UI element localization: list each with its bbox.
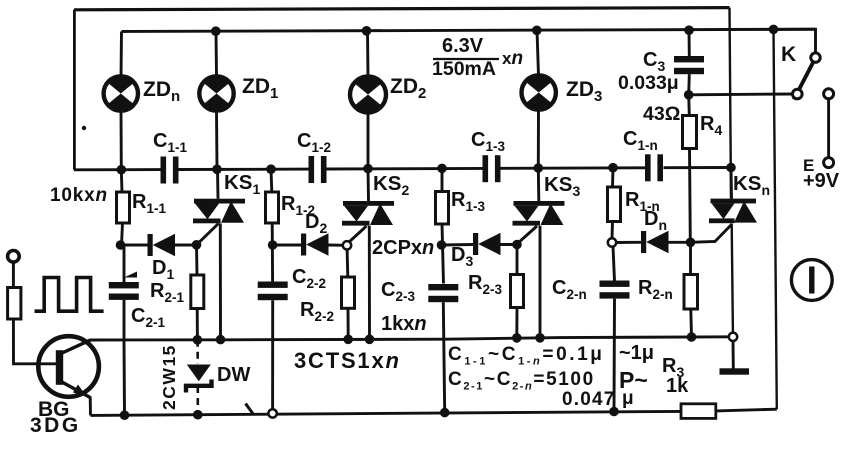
junction dot <box>266 164 276 174</box>
wire <box>120 111 123 170</box>
junction dot <box>343 335 353 345</box>
junction dot <box>362 26 372 36</box>
svg-text:C1-1: C1-1 <box>153 130 187 155</box>
svg-text:R1-1: R1-1 <box>132 191 166 216</box>
open node <box>729 333 737 341</box>
wire <box>122 223 125 283</box>
wire <box>216 169 219 198</box>
lamp ZDn <box>104 76 138 110</box>
wire <box>687 74 690 95</box>
svg-text:R2-3: R2-3 <box>468 272 502 297</box>
wire <box>689 242 692 274</box>
wire <box>271 300 274 413</box>
transistor BG 3DG <box>38 336 99 397</box>
diode D1 <box>148 234 176 256</box>
wire <box>732 341 735 369</box>
junction dot <box>116 240 126 250</box>
wire <box>664 166 732 169</box>
open node <box>824 89 834 99</box>
junction dot <box>609 407 619 417</box>
svg-text:R4: R4 <box>700 113 722 138</box>
wire <box>716 409 777 411</box>
svg-text:0.047: 0.047 <box>562 389 616 410</box>
open node <box>793 89 803 99</box>
wire <box>178 168 309 171</box>
svg-text:KS1: KS1 <box>224 171 260 197</box>
capacitor C1-2 <box>309 156 327 183</box>
svg-text:3CTS1xn: 3CTS1xn <box>294 348 401 373</box>
polarity tick C2-1 <box>124 272 137 278</box>
svg-text:+9V: +9V <box>803 170 840 192</box>
svg-text:KS2: KS2 <box>373 172 409 198</box>
svg-text:C2-3: C2-3 <box>381 279 415 304</box>
junction dot <box>684 25 694 35</box>
open node <box>824 158 834 168</box>
wire <box>197 224 219 245</box>
capacitor C2-1 <box>109 282 139 300</box>
wire <box>613 299 616 412</box>
wire <box>215 31 218 76</box>
junction dot <box>608 163 618 173</box>
wire <box>270 169 274 192</box>
junction dot <box>535 333 545 343</box>
wire <box>730 8 732 199</box>
svg-text:ZD2: ZD2 <box>390 75 426 102</box>
svg-text:C1-1~C1-n=0.1μ: C1-1~C1-n=0.1μ <box>448 344 605 368</box>
svg-text:ZD1: ZD1 <box>242 75 278 102</box>
wire <box>346 245 350 277</box>
junction dot <box>212 165 222 175</box>
stray dot <box>82 126 86 130</box>
svg-text:C1-2: C1-2 <box>297 130 331 155</box>
junction dot <box>268 240 278 250</box>
wire dashed from DW <box>197 386 200 415</box>
svg-text:150mA: 150mA <box>432 58 496 80</box>
wire <box>366 31 369 78</box>
wire <box>688 149 692 243</box>
wire <box>442 224 444 284</box>
junction dot <box>686 238 696 248</box>
junction dot <box>684 90 694 100</box>
svg-text:R2-1: R2-1 <box>150 280 184 305</box>
svg-text:1k: 1k <box>666 375 689 397</box>
wire <box>347 308 350 339</box>
thyristor KS2 <box>342 201 394 226</box>
capacitor C3 <box>674 56 704 74</box>
svg-text:2CW15: 2CW15 <box>159 344 179 410</box>
svg-text:10kxn: 10kxn <box>50 185 108 206</box>
wire <box>515 308 518 338</box>
wire <box>518 226 537 243</box>
wire <box>500 166 645 169</box>
wire <box>500 243 518 246</box>
svg-text:3DG: 3DG <box>30 414 81 437</box>
wire <box>611 168 614 187</box>
open node <box>608 238 616 246</box>
indicator I <box>791 260 832 301</box>
wire <box>273 244 301 247</box>
wire <box>516 245 519 275</box>
open node <box>268 409 276 417</box>
wire <box>35 278 104 312</box>
wire <box>120 170 124 192</box>
wire left border <box>73 10 76 170</box>
wire <box>13 319 56 364</box>
lamp ZD3 <box>522 75 556 109</box>
wire <box>537 168 540 201</box>
svg-text:C3: C3 <box>643 49 665 74</box>
resistor R2-1 <box>191 275 204 309</box>
wire dashed to DW <box>196 340 199 364</box>
svg-text:C1-n: C1-n <box>623 128 658 153</box>
wire <box>349 226 367 243</box>
wire <box>611 222 614 239</box>
wire <box>730 168 733 199</box>
svg-text:R1-3: R1-3 <box>451 189 485 214</box>
svg-text:C2-1: C2-1 <box>131 305 165 330</box>
capacitor C2-3 <box>428 284 458 302</box>
resistor R2-3 <box>511 275 524 308</box>
wire <box>74 168 161 171</box>
svg-text:R2-n: R2-n <box>638 277 673 302</box>
junction dot <box>687 332 697 342</box>
diode D2 <box>301 233 329 255</box>
svg-text:~1μ: ~1μ <box>619 342 654 364</box>
junction dot <box>211 26 221 36</box>
resistor R4 <box>683 116 697 149</box>
capacitor C1-3 <box>483 155 501 182</box>
wire <box>368 226 371 340</box>
wire <box>774 29 816 53</box>
junction dot <box>532 26 542 36</box>
junction dot <box>726 163 736 173</box>
svg-text:C2-n: C2-n <box>552 277 587 302</box>
capacitor C2-2 <box>258 282 288 301</box>
svg-text:ZDn: ZDn <box>143 78 180 105</box>
capacitor C2-n <box>600 281 630 299</box>
resistor R1-1 <box>117 192 130 223</box>
svg-text:KS3: KS3 <box>544 173 580 199</box>
ground <box>720 368 750 374</box>
svg-text:KSn: KSn <box>733 172 770 198</box>
wire <box>215 111 218 170</box>
wire <box>91 337 734 340</box>
wire <box>689 93 793 97</box>
wire <box>616 241 641 244</box>
thyristor KSn <box>709 199 757 224</box>
svg-text:2CPxn: 2CPxn <box>372 237 434 259</box>
wire <box>121 244 148 247</box>
wire top border <box>74 8 730 10</box>
junction dot <box>365 335 375 345</box>
svg-text:D1: D1 <box>152 257 174 282</box>
wire <box>122 29 816 31</box>
junction dot <box>437 240 447 250</box>
wire <box>89 397 92 416</box>
wire <box>174 244 197 247</box>
thyristor KS3 <box>513 201 565 226</box>
junction dot <box>216 335 226 345</box>
wire <box>327 167 484 171</box>
junction dot <box>120 410 130 420</box>
svg-text:C1-3: C1-3 <box>471 129 505 154</box>
wire <box>91 411 682 415</box>
junction dot <box>534 163 544 173</box>
capacitor C1-1 <box>161 157 179 184</box>
resistor R2-n <box>684 275 698 310</box>
wire <box>691 224 732 242</box>
resistor R3 <box>681 404 716 419</box>
wire <box>123 300 126 340</box>
wire <box>195 245 198 275</box>
wire <box>12 262 15 288</box>
resistor Rin <box>8 288 21 320</box>
wire <box>441 168 444 191</box>
open node <box>811 53 820 62</box>
wire <box>120 32 123 77</box>
svg-text:K: K <box>781 43 796 66</box>
wire <box>196 309 199 340</box>
svg-text:D3: D3 <box>451 244 473 269</box>
junction dot <box>117 165 127 175</box>
wire <box>271 223 274 282</box>
wire <box>328 244 348 247</box>
wire <box>732 224 733 341</box>
wire <box>443 302 444 412</box>
svg-text:1kxn: 1kxn <box>381 313 427 335</box>
svg-text:C2-2: C2-2 <box>292 266 326 291</box>
svg-text:6.3V: 6.3V <box>442 35 484 57</box>
wire <box>537 30 539 75</box>
junction dot <box>192 240 202 250</box>
thyristor KS1 <box>193 199 245 224</box>
diode D3 <box>473 233 501 255</box>
wire <box>689 309 693 337</box>
resistor R1-n <box>608 187 621 222</box>
svg-text:43Ω: 43Ω <box>643 103 680 125</box>
svg-text:DW: DW <box>217 364 250 386</box>
lamp ZD2 <box>350 77 386 113</box>
wire <box>537 110 540 169</box>
wire <box>774 29 777 409</box>
capacitor C1-n <box>645 154 663 181</box>
zener DW <box>186 365 212 393</box>
lamp ZD1 <box>199 76 233 110</box>
resistor R2-2 <box>342 277 355 308</box>
junction dot <box>437 164 447 174</box>
wire <box>367 169 370 201</box>
wire <box>827 99 830 158</box>
junction dot <box>769 25 779 35</box>
svg-text:ZD3: ZD3 <box>566 78 602 105</box>
wire <box>367 112 370 169</box>
junction dot <box>512 240 522 250</box>
junction dot <box>193 335 203 345</box>
svg-text:0.033μ: 0.033μ <box>618 72 679 94</box>
wire <box>687 95 690 116</box>
diode Dn <box>641 231 669 253</box>
input terminal <box>8 250 20 262</box>
wire <box>219 224 222 340</box>
wire <box>539 226 542 338</box>
svg-text:μ: μ <box>622 388 634 409</box>
junction dot <box>363 164 373 174</box>
wire <box>246 404 254 415</box>
wire <box>794 62 814 100</box>
svg-text:Dn: Dn <box>644 208 667 233</box>
junction dot <box>440 408 450 418</box>
svg-text:R2-2: R2-2 <box>300 299 334 324</box>
wire <box>668 241 691 244</box>
resistor R1-3 <box>436 192 449 225</box>
junction dot <box>193 410 203 420</box>
resistor R1-2 <box>266 192 279 223</box>
wire <box>688 30 691 56</box>
open node <box>343 241 351 249</box>
wire <box>442 243 474 246</box>
svg-text:D2: D2 <box>305 211 327 236</box>
wire <box>613 247 615 282</box>
junction dot <box>512 333 522 343</box>
wire <box>123 340 126 415</box>
svg-text:xn: xn <box>502 48 523 69</box>
